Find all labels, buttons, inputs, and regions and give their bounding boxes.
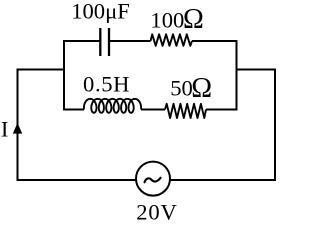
resistor R1 100ohm zigzag — [151, 34, 193, 46]
svg-text:0.5H: 0.5H — [83, 71, 130, 96]
svg-text:20V: 20V — [136, 200, 177, 225]
AC source V1 circle — [136, 162, 170, 196]
wire: top branch left (to capacitor) — [63, 40, 99, 42]
capacitor C1 100uF left plate — [99, 28, 101, 56]
wire: outer left vertical — [17, 70, 19, 181]
svg-text:I: I — [1, 117, 9, 142]
wire: bottom right segment — [170, 179, 276, 181]
wire: inner rect right vertical — [236, 40, 238, 111]
wire: bottom branch left (to inductor) — [63, 109, 84, 111]
wire: outer middle-right horizontal — [237, 69, 277, 71]
wire: top branch right — [192, 40, 238, 42]
svg-text:Ω: Ω — [191, 73, 212, 104]
svg-text:50: 50 — [170, 75, 193, 100]
wire: inner rect left vertical — [63, 40, 65, 111]
wire: bottom branch right — [206, 109, 238, 111]
svg-text:100μF: 100μF — [71, 0, 130, 24]
wire: bottom branch middle (inductor to resistor) — [141, 109, 165, 111]
current arrow I — [13, 123, 22, 134]
svg-text:100: 100 — [150, 7, 184, 32]
svg-text:Ω: Ω — [183, 4, 204, 35]
inductor L1 0.5H coil — [84, 99, 141, 113]
AC source sine symbol — [145, 178, 161, 183]
resistor R2 50ohm zigzag — [165, 104, 206, 118]
wire: outer top-left horizontal — [17, 69, 65, 71]
capacitor C1 100uF right plate — [108, 28, 110, 56]
wire: top branch middle (capacitor to resistor) — [110, 40, 151, 42]
wire: outer right vertical — [274, 70, 276, 182]
wire: bottom left segment — [17, 179, 137, 181]
